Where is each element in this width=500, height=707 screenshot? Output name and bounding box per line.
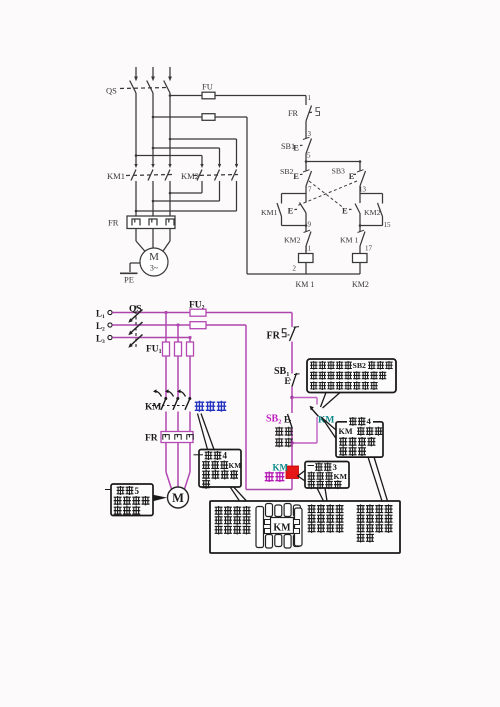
svg-text:FU: FU bbox=[202, 82, 213, 92]
svg-text:L1: L1 bbox=[96, 309, 105, 321]
svg-text:KM1: KM1 bbox=[261, 208, 278, 217]
svg-text:KM: KM bbox=[229, 461, 242, 470]
svg-text:KM 1: KM 1 bbox=[296, 280, 315, 289]
svg-text:17: 17 bbox=[365, 245, 373, 253]
svg-text:3~: 3~ bbox=[150, 264, 159, 273]
svg-text:KM 1: KM 1 bbox=[340, 236, 359, 245]
svg-text:KM: KM bbox=[334, 472, 348, 481]
svg-text:PE: PE bbox=[124, 275, 134, 285]
svg-text:7: 7 bbox=[308, 186, 312, 194]
svg-text:5: 5 bbox=[307, 152, 311, 160]
svg-text:KM: KM bbox=[145, 403, 161, 413]
svg-text:M: M bbox=[172, 491, 184, 505]
svg-text:E: E bbox=[349, 171, 355, 181]
svg-text:M: M bbox=[149, 251, 159, 263]
svg-text:4: 4 bbox=[367, 416, 372, 426]
svg-text:KM1: KM1 bbox=[107, 171, 125, 181]
svg-text:FR: FR bbox=[267, 331, 281, 342]
svg-text:13: 13 bbox=[359, 186, 367, 194]
svg-text:FU1: FU1 bbox=[146, 345, 162, 356]
svg-text:5: 5 bbox=[135, 486, 140, 496]
svg-text:3: 3 bbox=[308, 130, 312, 138]
svg-text:SB2: SB2 bbox=[353, 361, 367, 370]
svg-text:2: 2 bbox=[293, 265, 297, 273]
svg-text:E: E bbox=[285, 376, 291, 386]
svg-text:1: 1 bbox=[308, 94, 312, 102]
svg-text:FR: FR bbox=[288, 109, 299, 118]
svg-text:KM: KM bbox=[273, 463, 289, 473]
svg-text:KM2: KM2 bbox=[284, 236, 301, 245]
svg-text:SB1: SB1 bbox=[281, 142, 295, 151]
svg-text:FR: FR bbox=[145, 434, 158, 444]
svg-text:4: 4 bbox=[223, 451, 228, 461]
svg-text:FR: FR bbox=[108, 218, 119, 228]
svg-text:L3: L3 bbox=[96, 334, 105, 346]
svg-text:9: 9 bbox=[308, 221, 312, 229]
svg-text:3: 3 bbox=[333, 462, 338, 472]
svg-text:KM2: KM2 bbox=[181, 171, 199, 181]
svg-text:SB3: SB3 bbox=[332, 167, 346, 176]
svg-text:KM: KM bbox=[273, 523, 291, 534]
svg-text:E: E bbox=[288, 206, 294, 216]
svg-text:KM2: KM2 bbox=[352, 280, 369, 289]
svg-text:E: E bbox=[342, 206, 348, 216]
svg-text:SB2: SB2 bbox=[266, 414, 281, 426]
svg-text:15: 15 bbox=[384, 221, 392, 229]
svg-text:SB2: SB2 bbox=[280, 167, 294, 176]
svg-text:KM: KM bbox=[339, 427, 353, 436]
svg-text:KM2: KM2 bbox=[364, 208, 381, 217]
svg-text:L2: L2 bbox=[96, 321, 105, 333]
svg-text:QS: QS bbox=[106, 86, 117, 96]
svg-text:E: E bbox=[293, 171, 299, 181]
